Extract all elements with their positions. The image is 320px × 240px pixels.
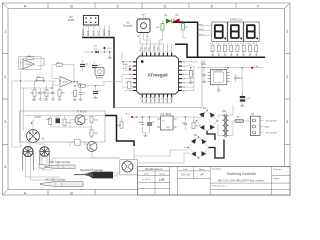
node GND label (31, 115, 41, 124)
wire MCU bottom pins down (142, 98, 171, 104)
svg-text:SA36-11xx: SA36-11xx (230, 18, 243, 22)
transistor array IC4 (210, 70, 227, 85)
resistor R11 (46, 116, 52, 128)
capacitor C9 (147, 122, 152, 125)
svg-text:4: 4 (165, 51, 167, 52)
wire X3 pins down (30, 142, 120, 170)
diode D4 (120, 122, 123, 128)
wire bridge links (207, 132, 224, 159)
node cartridge C245 drawing (40, 182, 83, 187)
connector X5 tip (120, 160, 138, 175)
svg-text:AVCC: AVCC (123, 67, 129, 70)
frame letters (4, 3, 289, 195)
transistor T2 (84, 142, 97, 152)
svg-text:XX.XX: XX.XX (181, 173, 190, 177)
svg-text:T1 BC817: T1 BC817 (77, 111, 88, 114)
svg-text:Page no.: Page no. (273, 169, 282, 171)
svg-text:220: 220 (255, 55, 258, 57)
wire to C12 (241, 68, 243, 96)
svg-text:220: 220 (230, 55, 233, 57)
wire MCU top pins up (140, 40, 172, 53)
svg-text:100n: 100n (201, 64, 207, 66)
wire lower-left region to tip connector (105, 116, 134, 147)
svg-text:LM358: LM358 (26, 64, 32, 66)
svg-text:JBC C245 Cartridge: JBC C245 Cartridge (45, 178, 66, 181)
wire connectors down (26, 156, 61, 180)
node MCU top net labels (141, 46, 160, 51)
connector X4 (250, 114, 277, 135)
node cartridge WELLER drawing (dark) (74, 172, 113, 179)
svg-text:MOSI: MOSI (102, 29, 106, 36)
svg-text:c: c (222, 43, 224, 44)
svg-text:GND: GND (107, 30, 111, 36)
node PC marks left of MCU (122, 61, 131, 88)
display LED1 SA36-11xx (212, 18, 259, 42)
resistor R15 (90, 123, 99, 139)
svg-text:g: g (247, 43, 249, 44)
capacitor C10 (184, 123, 188, 125)
svg-text:220: 220 (211, 55, 214, 57)
svg-text:VCC: VCC (107, 48, 112, 50)
svg-text:C: C (117, 3, 120, 8)
resistor R6 feedback top (52, 62, 74, 81)
svg-text:Name: Name (199, 169, 206, 171)
svg-text:d: d (229, 43, 231, 44)
ground (143, 132, 150, 134)
svg-text:Name: Name (159, 174, 166, 176)
wire ISP bus to MCU block (82, 38, 114, 109)
wire power to left (184, 105, 233, 148)
svg-text:TR1: TR1 (222, 111, 227, 113)
svg-text:220: 220 (249, 55, 252, 57)
svg-text:10k: 10k (32, 100, 35, 102)
resistor R7 series (37, 77, 43, 81)
wire MCU left pins (122, 62, 133, 91)
resistor R20 ladder extra (72, 85, 86, 100)
svg-text:GND: GND (35, 115, 41, 119)
connector X7 plug (40, 147, 50, 168)
wire sense line from MCU left to analog (96, 52, 123, 86)
digit 2 (228, 22, 243, 42)
capacitor C3 (80, 60, 89, 71)
wire MCU block bottom border (114, 62, 202, 108)
wire out of IC2B to node (56, 81, 90, 86)
resistor R1 (157, 24, 165, 30)
svg-text:Pages: Pages (273, 178, 280, 180)
svg-text:Date: Date (144, 173, 149, 176)
svg-text:JBC C210 Cartridge: JBC C210 Cartridge (50, 161, 71, 164)
wire LED net (144, 21, 187, 40)
node VCC rail under MCU (117, 114, 201, 137)
connector X2 ICSP (68, 15, 99, 25)
svg-text:~24V (230V): ~24V (230V) (265, 132, 278, 134)
thick bus wires (82, 22, 265, 146)
svg-text:+5V: +5V (255, 66, 259, 68)
buzzer SP1 (95, 68, 104, 80)
svg-text:220: 220 (224, 55, 227, 57)
wire MCU right pins to display block (182, 62, 198, 91)
svg-text:220: 220 (242, 55, 245, 57)
node MCU bottom net labels (142, 98, 173, 103)
svg-text:VP: VP (200, 173, 204, 177)
svg-text:SCK: SCK (86, 30, 90, 36)
svg-text:E: E (211, 3, 214, 8)
wire LED net down to display bus (173, 22, 198, 57)
svg-text:VCC: VCC (163, 98, 165, 103)
shift register IC2 section (189, 62, 263, 97)
svg-text:B: B (70, 3, 73, 8)
svg-text:3: 3 (161, 51, 163, 52)
svg-text:HB: HB (159, 177, 165, 182)
node cartridge C210 drawing (45, 165, 75, 169)
LED D2 green (165, 15, 172, 24)
LED D3 red (174, 15, 180, 24)
svg-text:IC2 HC595: IC2 HC595 (213, 70, 224, 72)
svg-text:GND: GND (265, 126, 270, 128)
svg-text:220: 220 (217, 55, 220, 57)
svg-text:Modifications: Modifications (145, 167, 163, 171)
svg-text:B: B (70, 190, 73, 195)
svg-text:220: 220 (236, 55, 239, 57)
svg-text:MISO: MISO (81, 29, 85, 36)
svg-text:JBC C210, C245, WELLER RT (tip: JBC C210, C245, WELLER RT (tips, ceramic… (218, 179, 265, 182)
transformer TR1 (218, 111, 233, 138)
resistor R2 (182, 24, 189, 30)
wire display commons (198, 26, 212, 36)
svg-text:A: A (24, 190, 27, 195)
capacitor C13 (202, 74, 206, 76)
capacitor C7 (93, 86, 102, 99)
svg-text:ICSP: ICSP (68, 18, 75, 22)
digit 3 (244, 22, 259, 42)
diode D1 near ISP (84, 47, 114, 54)
voltage regulator IC3 78L05 (161, 116, 174, 130)
resistor R8 (79, 83, 85, 87)
svg-text:VCC: VCC (97, 30, 101, 36)
svg-text:Schematic no.: x: Schematic no.: x (211, 185, 228, 188)
connector X6 plug (23, 147, 34, 171)
svg-text:Description: Description (211, 168, 221, 171)
encoder X1 (123, 15, 150, 45)
resistor R13 (192, 122, 195, 128)
pins (133, 53, 182, 98)
node junction dots analog (20, 80, 96, 88)
svg-text:C14: C14 (238, 78, 243, 80)
rectifier B2 (187, 135, 209, 159)
svg-text:IC3 78L05: IC3 78L05 (161, 114, 172, 116)
transistor T1 (75, 111, 88, 125)
wire region internals (12, 81, 105, 147)
op-amp IC2B (52, 77, 77, 88)
capacitor C8 (141, 123, 145, 125)
svg-text:D: D (164, 3, 167, 8)
wire MCU block right to display bus (175, 44, 265, 57)
node tip contact box (39, 165, 45, 169)
svg-text:~24V (230V): ~24V (230V) (265, 120, 278, 122)
capacitor C11 dark (55, 116, 60, 123)
wire ISP pins down (84, 25, 110, 38)
capacitor C4 (92, 61, 101, 68)
resistor R14 (90, 116, 99, 123)
svg-text:ATmega8: ATmega8 (147, 73, 168, 78)
RC ladder to ground (31, 81, 66, 102)
resistor R5 feedback (21, 56, 45, 69)
resistor R12 (63, 116, 72, 126)
pin numbers (129, 50, 185, 99)
svg-text:Encoder: Encoder (123, 24, 133, 28)
fuse F1 (233, 117, 250, 123)
sheet frame (3, 3, 291, 195)
wire lower rail (21, 81, 96, 88)
svg-text:1k: 1k (44, 100, 46, 102)
ground near ISP (108, 51, 112, 58)
svg-text:Soldering Controller: Soldering Controller (227, 172, 258, 176)
svg-text:Buzzer: Buzzer (96, 76, 104, 79)
op-amp IC2A (19, 57, 45, 70)
capacitor C12 dark (240, 92, 251, 107)
resistor R19 (189, 71, 192, 77)
svg-text:VCC: VCC (125, 114, 130, 116)
svg-text:A: A (24, 3, 27, 8)
resistor R17 box near T2 (70, 139, 120, 158)
rectifier B1 (196, 108, 218, 132)
title block (138, 167, 290, 196)
microcontroller IC1 ATmega8 (129, 50, 185, 99)
digit 1 (212, 22, 227, 42)
svg-text:LM358: LM358 (62, 82, 68, 84)
capacitor C14 (234, 77, 238, 79)
svg-text:RST: RST (91, 30, 95, 36)
svg-text:GND: GND (167, 98, 169, 103)
wire lower-left group box (20, 111, 105, 142)
svg-text:WELLER RT Cartridge: WELLER RT Cartridge (80, 169, 104, 172)
svg-text:5: 5 (169, 51, 171, 52)
svg-text:+5V: +5V (93, 46, 97, 48)
svg-text:xx.02.15: xx.02.15 (143, 179, 151, 181)
resistor network R11-R18 (210, 41, 258, 57)
wire weller to X5 (113, 146, 190, 176)
wire opamp1 out down (12, 58, 56, 81)
svg-text:Date: Date (183, 168, 188, 171)
connector X3 DIN (27, 130, 45, 143)
